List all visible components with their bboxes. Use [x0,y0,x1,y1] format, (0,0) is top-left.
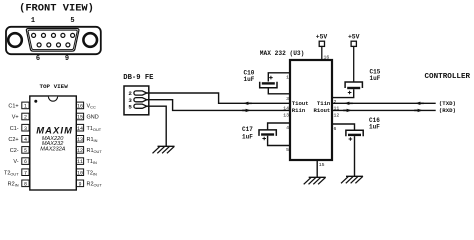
pin 5 hole [71,33,75,37]
wire C10 to pin3 [268,88,290,94]
svg-text:VCC: VCC [87,104,96,110]
pin box 14 [76,124,83,131]
svg-text:2: 2 [334,99,337,105]
svg-text:12: 12 [334,112,340,118]
wire pin4 to C17 [268,123,290,130]
mounting hole left [8,33,22,47]
capacitor C17 [242,123,290,146]
wires from DB-9 FE to U3 [147,93,290,146]
arrow T1in outer (pointing left) [415,102,424,105]
svg-text:MAX 232 (U3): MAX 232 (U3) [260,50,305,57]
svg-text:R1out: R1out [314,107,331,114]
svg-text:1: 1 [286,75,289,81]
pin 1 hole [32,33,36,37]
C15 bar plate [347,87,360,89]
wire pin6 to C16 [332,124,355,130]
svg-text:T2OUT: T2OUT [4,170,19,176]
op-amp U3 MAX232 [260,50,340,168]
C17 plus mark [262,137,266,141]
pin box 11 [76,158,83,165]
IC U2 MAX232 DIP-16 top view [4,83,102,190]
wire pin1 to C10 [268,73,290,82]
svg-text:R1OUT: R1OUT [87,148,103,154]
C15 plus mark [348,91,352,95]
svg-text:R1in: R1in [292,107,306,114]
wire +5V to C15 [353,46,355,82]
svg-text:R1IN: R1IN [87,137,98,143]
pin 1 dot [34,100,37,103]
svg-text:V-: V- [13,159,18,165]
svg-text:9: 9 [78,181,81,187]
DB-9 FE body [124,86,149,115]
svg-text:14: 14 [77,126,83,132]
svg-text:1: 1 [24,104,27,110]
DB9 shell outline [6,27,101,54]
svg-text:5: 5 [286,147,289,153]
wire pin3 to R1in (pin 13) [147,100,290,111]
svg-text:16: 16 [324,55,330,61]
C17 bar plate [261,133,274,135]
svg-text:T1IN: T1IN [87,159,98,165]
svg-text:+5V: +5V [316,34,328,41]
pin box 6 [22,158,29,165]
pin 2 socket [134,91,147,95]
svg-text:5: 5 [70,17,74,25]
mounting hole right [83,33,97,47]
C16 bar plate [348,134,361,136]
pin box 1 [22,102,29,109]
C17 cup plate [259,130,276,136]
svg-text:2: 2 [24,115,27,121]
wire C15 to pin2 [332,89,354,97]
pin box 2 [22,113,29,120]
svg-text:3: 3 [286,96,289,102]
+5V supply (VCC pin) [316,34,328,60]
arrow T1out (left, pointing left) [243,102,252,105]
pin 8 hole [57,43,61,47]
svg-text:R2OUT: R2OUT [87,181,103,187]
D-shell trapezoid inner [28,30,77,49]
wire GND pin 15 stem [316,160,318,177]
pin box 4 [22,136,29,143]
svg-text:3: 3 [24,126,27,132]
pin 4 hole [61,33,65,37]
svg-text:15: 15 [319,162,325,168]
wire pin2 to T1out (pin 14) [147,93,290,103]
svg-text:+5V: +5V [348,34,360,41]
svg-text:6: 6 [36,55,40,63]
svg-text:(FRONT VIEW): (FRONT VIEW) [19,3,94,15]
connector J2 DB-9 FE [123,74,154,115]
pin box 5 [22,147,29,154]
pin 3 socket [134,98,147,102]
D-shell trapezoid outer [26,29,79,52]
DIP body [30,96,77,190]
pin box 15 [76,113,83,120]
+5V supply (C15) [348,34,360,82]
svg-text:T1out: T1out [292,100,309,107]
svg-text:10: 10 [77,170,83,176]
svg-text:GND: GND [87,115,99,121]
pin box 3 [22,124,29,131]
svg-text:9: 9 [65,55,69,63]
svg-text:8: 8 [24,181,27,187]
svg-text:1: 1 [31,17,35,25]
C16 plus mark [349,137,353,141]
C10 cup plate [260,82,277,88]
svg-text:T1OUT: T1OUT [87,126,102,132]
wire T1in (pin 11) [332,102,436,104]
svg-text:16: 16 [77,104,83,110]
C16 cup plate [346,130,363,136]
svg-text:7: 7 [24,170,27,176]
svg-text:1uF: 1uF [370,75,381,82]
pin 5 socket [134,104,147,108]
pin 6 hole [37,43,41,47]
svg-text:14: 14 [283,105,289,111]
pin 2 hole [42,33,46,37]
notch [48,97,57,102]
capacitor C15 [332,69,381,98]
C10 plus mark [269,76,273,80]
pin 9 hole [66,43,70,47]
pin 3 hole [52,33,56,37]
pin box 12 [76,147,83,154]
svg-text:12: 12 [77,148,83,154]
svg-text:TOP VIEW: TOP VIEW [39,83,68,90]
arrow T1in inner (pointing left) [344,102,353,105]
pin box 13 [76,136,83,143]
ground (DB-9 FE pin 5) [153,146,175,153]
svg-text:CONTROLLER: CONTROLLER [425,73,471,81]
svg-text:1uF: 1uF [242,134,253,141]
pin box 7 [22,169,29,176]
wire C16 to ground [354,136,356,176]
svg-text:6: 6 [334,126,337,132]
svg-text:MAX232A: MAX232A [40,147,65,153]
ground (U3 pin 15) [304,177,326,184]
svg-text:C1-: C1- [10,126,19,132]
capacitor C16 [332,117,380,176]
svg-text:DB-9 FE: DB-9 FE [123,74,154,82]
arrow R1out inner (pointing right) [343,109,352,112]
C10 bar plate [262,82,275,84]
svg-text:5: 5 [128,103,132,110]
svg-text:C2+: C2+ [8,137,18,143]
svg-text:MAXIM: MAXIM [36,125,72,136]
svg-text:C2-: C2- [10,148,19,154]
svg-text:V+: V+ [12,115,19,121]
svg-text:4: 4 [286,125,289,131]
arrow R1out outer (pointing right) [414,109,423,112]
svg-text:(TXD): (TXD) [439,100,456,107]
svg-text:13: 13 [77,137,83,143]
C15 cup plate [345,82,362,88]
svg-text:(RXD): (RXD) [439,107,456,114]
svg-text:1uF: 1uF [369,124,380,131]
wire R1out (pin 12) [332,109,436,111]
svg-text:6: 6 [24,159,27,165]
svg-text:R2IN: R2IN [8,181,19,187]
svg-text:5: 5 [24,148,27,154]
pin 7 hole [47,43,51,47]
svg-text:15: 15 [77,115,83,121]
ground (C16) [341,176,363,183]
pin box 10 [76,169,83,176]
svg-text:C1+: C1+ [8,104,18,110]
wire pin5 to ground [147,106,166,146]
capacitor C10 [244,69,291,94]
svg-text:T2IN: T2IN [87,170,98,176]
pin box 9 [76,180,83,187]
U3 body [290,60,332,160]
wires U3 to controller [332,103,436,110]
wire VCC stem [321,46,323,60]
pin box 8 [22,180,29,187]
svg-text:1uF: 1uF [244,76,255,83]
svg-text:13: 13 [283,112,289,118]
arrow R1in (left, pointing right) [242,109,251,112]
svg-text:T1in: T1in [317,100,331,107]
pin box 16 [76,102,83,109]
svg-text:11: 11 [77,159,83,165]
wire C17 to pin5 [268,136,290,146]
svg-text:4: 4 [24,137,27,143]
svg-text:C17: C17 [242,126,253,133]
connector J1 DB-9 front view [6,3,101,64]
